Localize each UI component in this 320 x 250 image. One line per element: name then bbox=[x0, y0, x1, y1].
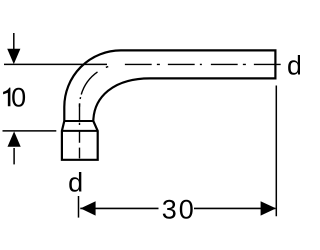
svg-text:0: 0 bbox=[11, 83, 26, 113]
svg-text:d: d bbox=[68, 168, 83, 198]
svg-text:d: d bbox=[287, 50, 300, 80]
svg-text:30: 30 bbox=[162, 195, 196, 225]
